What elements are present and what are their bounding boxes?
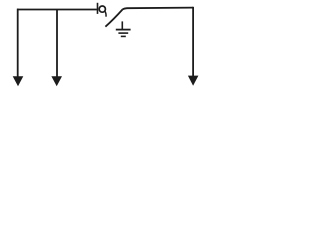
ground bar 2 (middle) xyxy=(118,32,128,34)
arrowhead middle (downward current arrow) xyxy=(51,76,62,86)
wire left vertical drop xyxy=(17,9,19,78)
switch terminal tick xyxy=(97,3,99,14)
switch contact circle tail xyxy=(105,11,106,17)
switch blade (open, slanted) xyxy=(105,9,122,26)
wire middle vertical drop xyxy=(56,10,58,79)
ground bar 3 (narrowest) xyxy=(121,35,126,37)
arrowhead left (downward current arrow) xyxy=(13,76,24,86)
wire top-left horizontal bus xyxy=(17,9,97,11)
ground stem wire xyxy=(121,21,123,29)
wire right vertical drop xyxy=(192,7,194,77)
wire top-right horizontal bus xyxy=(123,8,194,10)
ground bar 1 (widest) xyxy=(116,29,131,31)
switch contact circle xyxy=(99,6,105,12)
arrowhead right (downward current arrow) xyxy=(188,76,199,86)
